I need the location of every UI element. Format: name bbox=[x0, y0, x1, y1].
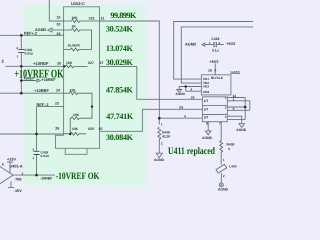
green highlight region bbox=[24, 5, 147, 187]
node -10REF bbox=[35, 174, 38, 177]
svg-text:RLYCLK: RLYCLK bbox=[211, 76, 224, 80]
svg-text:-10REF: -10REF bbox=[40, 176, 53, 180]
AGND triangle right bbox=[239, 124, 245, 128]
wire U411 row3 with AGND stub bbox=[179, 87, 201, 90]
svg-text:U401-A: U401-A bbox=[10, 165, 23, 169]
svg-text:X21: X21 bbox=[89, 17, 95, 21]
svg-text:3/T: 3/T bbox=[204, 116, 209, 120]
svg-text:10K: 10K bbox=[73, 113, 80, 117]
svg-text:2: 2 bbox=[219, 41, 221, 45]
svg-text:AGND: AGND bbox=[218, 187, 229, 191]
svg-text:L404: L404 bbox=[229, 164, 237, 168]
svg-text:U411: U411 bbox=[231, 70, 241, 75]
U411 right pin stubs bbox=[227, 98, 250, 120]
op-amp -15V power stub bbox=[8, 181, 14, 187]
svg-text:+15V: +15V bbox=[7, 158, 16, 162]
svg-text:1/T: 1/T bbox=[204, 99, 209, 103]
inductor L404 slanted body bbox=[216, 164, 227, 173]
tiny labels bbox=[2, 1, 247, 193]
resistor row7 10K bbox=[70, 117, 92, 135]
svg-text:2: 2 bbox=[161, 142, 163, 146]
wire pin26 from left edge bbox=[0, 133, 64, 135]
wire pin7 down to R438 bbox=[220, 122, 222, 141]
C418 wire right bbox=[217, 44, 224, 46]
svg-text:10K: 10K bbox=[72, 127, 79, 131]
svg-text:8: 8 bbox=[2, 162, 4, 166]
svg-text:1: 1 bbox=[209, 41, 211, 45]
wire +10REF pin24 bbox=[0, 92, 64, 94]
node net2 bbox=[20, 65, 23, 68]
wire to right AGND bbox=[227, 116, 241, 124]
svg-text:0.1u: 0.1u bbox=[212, 48, 219, 52]
svg-text:1: 1 bbox=[233, 97, 235, 101]
wire +5V2 to pin16 bbox=[214, 64, 216, 75]
resistor row1 10K bbox=[64, 20, 100, 23]
svg-text:X27: X27 bbox=[88, 61, 94, 65]
svg-text:26: 26 bbox=[191, 96, 195, 100]
resistor row3 10.067K bbox=[64, 48, 92, 51]
ground circle symbol bbox=[219, 183, 223, 187]
wire X21 pin21 right, down to R448 bbox=[100, 21, 160, 125]
AGND triangle mid bbox=[177, 90, 182, 93]
svg-text:28: 28 bbox=[57, 62, 61, 66]
svg-text:1: 1 bbox=[22, 171, 24, 175]
AGND arrow flag for C418 bbox=[202, 43, 205, 46]
resistor R438 vertical bbox=[220, 141, 223, 154]
green measurement values bbox=[106, 11, 137, 142]
wire L404 to ground circle bbox=[220, 173, 222, 183]
right bus vertical bbox=[244, 98, 246, 120]
vertical row3 to row4 bbox=[185, 87, 187, 92]
svg-text:10K: 10K bbox=[66, 61, 73, 65]
svg-text:13.074K: 13.074K bbox=[106, 44, 134, 53]
wire pin6 down bbox=[207, 122, 209, 131]
U411 lower sub-boxes bbox=[202, 97, 227, 122]
svg-text:+10REF: +10REF bbox=[33, 61, 49, 66]
wire R438 to L404 bbox=[220, 153, 222, 165]
svg-text:42.2K: 42.2K bbox=[162, 134, 171, 138]
node pin23 branch bbox=[91, 105, 93, 107]
sub-box dividers bbox=[202, 105, 227, 114]
node row3 tie bbox=[185, 85, 187, 87]
svg-text:+10VREF OK: +10VREF OK bbox=[14, 66, 64, 80]
svg-text:7: 7 bbox=[219, 122, 221, 126]
second right bus vertical bbox=[249, 101, 251, 111]
svg-text:U102-C: U102-C bbox=[71, 1, 85, 6]
svg-text:U5: U5 bbox=[179, 105, 183, 109]
svg-text:10.067K: 10.067K bbox=[68, 44, 81, 48]
svg-text:C418: C418 bbox=[211, 37, 219, 41]
svg-text:+5V2: +5V2 bbox=[226, 42, 235, 46]
node R7 bottom joins pin26 row bbox=[69, 133, 71, 135]
node X21-R448 bbox=[158, 117, 161, 120]
svg-text:15: 15 bbox=[57, 16, 61, 20]
svg-text:AGND: AGND bbox=[236, 128, 247, 132]
op-amp U401-A triangle bbox=[0, 163, 13, 188]
svg-text:1: 1 bbox=[161, 123, 163, 127]
svg-text:R438: R438 bbox=[227, 142, 235, 146]
svg-text:5: 5 bbox=[233, 107, 235, 111]
svg-text:30.524K: 30.524K bbox=[106, 25, 134, 34]
svg-text:25: 25 bbox=[99, 127, 103, 131]
svg-text:10K: 10K bbox=[70, 89, 77, 93]
left lower vertical with C402 bbox=[36, 107, 38, 176]
node pin28 at box edge bbox=[63, 65, 65, 67]
C418 wire left bbox=[205, 44, 214, 46]
svg-text:26: 26 bbox=[55, 127, 59, 131]
svg-text:47.854K: 47.854K bbox=[106, 85, 134, 94]
svg-text:23: 23 bbox=[55, 102, 59, 106]
pin16 arrowhead bbox=[214, 70, 217, 73]
wire pin27 to U411 row1 bbox=[100, 66, 203, 99]
short stub U411 pin4 bbox=[186, 90, 202, 92]
component box U102 outline bbox=[56, 7, 100, 149]
node flag row bbox=[20, 79, 23, 82]
svg-text:6: 6 bbox=[206, 122, 208, 126]
svg-text:47.741K: 47.741K bbox=[106, 112, 134, 121]
svg-text:21: 21 bbox=[101, 17, 105, 21]
svg-text:4: 4 bbox=[184, 114, 186, 118]
left vertical wire upper bbox=[20, 35, 22, 93]
svg-text:30: 30 bbox=[57, 23, 61, 27]
svg-text:27: 27 bbox=[100, 61, 104, 65]
svg-text:X25: X25 bbox=[88, 127, 94, 131]
wire REF+.2 pin29 bbox=[0, 34, 64, 36]
op-amp output wire to -10REF node bbox=[13, 174, 55, 176]
svg-text:CN4: CN4 bbox=[203, 90, 209, 94]
node right bus bbox=[244, 106, 247, 109]
wire AGND flag to pin30 bbox=[52, 29, 64, 31]
resistor row8 pin26-25 bbox=[64, 132, 86, 135]
svg-text:99.899K: 99.899K bbox=[110, 11, 137, 20]
svg-text:4: 4 bbox=[190, 87, 192, 91]
svg-text:29: 29 bbox=[57, 32, 61, 36]
svg-text:1K: 1K bbox=[72, 25, 77, 29]
svg-text:AGND: AGND bbox=[175, 92, 185, 96]
svg-text:16: 16 bbox=[208, 69, 212, 73]
wire flag row bbox=[21, 80, 37, 82]
svg-text:706: 706 bbox=[15, 177, 21, 181]
svg-text:AGND: AGND bbox=[185, 42, 196, 46]
wire top-right inner corner bbox=[181, 27, 253, 83]
svg-text:1: 1 bbox=[223, 158, 225, 162]
svg-text:AGND: AGND bbox=[154, 158, 165, 162]
wire REF-.2 pin23 bbox=[37, 106, 64, 108]
op-amp +15V power stub bbox=[7, 162, 13, 173]
wire top-right outer corner bbox=[174, 22, 253, 80]
svg-text:0.01u: 0.01u bbox=[25, 52, 33, 56]
svg-text:24: 24 bbox=[56, 89, 60, 93]
svg-text:0.01u: 0.01u bbox=[41, 154, 49, 158]
U411 upper box bbox=[201, 75, 231, 95]
svg-text:30.084K: 30.084K bbox=[106, 133, 134, 142]
svg-text:REF-.2: REF-.2 bbox=[37, 103, 49, 107]
wire pin15 vertical from top bbox=[49, 0, 63, 21]
C418 plates bbox=[214, 42, 216, 47]
node pin26 bbox=[35, 133, 38, 136]
svg-text:VD3: VD3 bbox=[203, 85, 209, 89]
AGND triangle under R448 bbox=[156, 153, 162, 157]
svg-text:-10VREF OK: -10VREF OK bbox=[56, 171, 100, 182]
wire pin25 to U411 row2 bbox=[100, 109, 203, 131]
wire junction to U411 row3 bbox=[159, 117, 202, 119]
AGND flag arrow p30 bbox=[48, 28, 52, 32]
capacitor C401 plates bbox=[18, 49, 24, 52]
wire R448 to ground bbox=[158, 141, 160, 153]
resistor row2 bbox=[64, 29, 92, 50]
wire net2 pin28 bbox=[6, 65, 64, 67]
svg-text:U411 replaced: U411 replaced bbox=[168, 146, 215, 157]
resistor row5 pin24 bbox=[64, 92, 92, 119]
resistor row4 pin28-27 bbox=[64, 65, 88, 68]
svg-text:-15V: -15V bbox=[14, 189, 22, 193]
node pin24 bbox=[20, 92, 23, 95]
svg-text:2: 2 bbox=[223, 174, 225, 178]
resistor R448 vertical bbox=[158, 127, 161, 141]
svg-text:10K: 10K bbox=[72, 16, 79, 20]
svg-text:2/T: 2/T bbox=[204, 107, 209, 111]
AGND triangle pin6 bbox=[205, 131, 211, 135]
svg-text:+10REF: +10REF bbox=[34, 88, 49, 93]
svg-text:0: 0 bbox=[228, 147, 230, 151]
capacitor C402 plates bbox=[34, 151, 40, 154]
svg-text:30.029K: 30.029K bbox=[106, 58, 134, 67]
flag arrow +10REF bbox=[37, 79, 41, 82]
svg-text:+5V2: +5V2 bbox=[210, 60, 219, 64]
svg-text:REF+.2: REF+.2 bbox=[24, 31, 37, 35]
box bottom tab bbox=[65, 148, 87, 154]
node REF+.2 bbox=[20, 34, 23, 37]
svg-text:AGND: AGND bbox=[202, 136, 213, 140]
